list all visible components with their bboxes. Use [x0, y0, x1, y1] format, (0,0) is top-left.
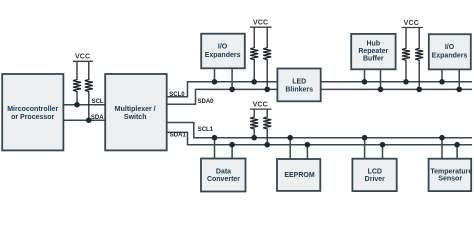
svg-text:VCC: VCC [253, 20, 268, 27]
svg-text:VCC: VCC [253, 101, 268, 108]
svg-text:Data: Data [216, 168, 231, 175]
svg-text:Multiplexer /: Multiplexer / [115, 106, 156, 113]
svg-text:VCC: VCC [404, 20, 419, 27]
svg-text:VCC: VCC [75, 54, 90, 61]
svg-text:I/O: I/O [218, 43, 228, 50]
svg-text:Blinkers: Blinkers [285, 87, 313, 94]
svg-text:Driver: Driver [365, 176, 386, 183]
svg-text:LED: LED [292, 79, 306, 86]
svg-text:Converter: Converter [207, 176, 240, 183]
svg-text:Repeater: Repeater [358, 48, 388, 55]
svg-text:SCL0: SCL0 [169, 92, 185, 98]
svg-text:Sensor: Sensor [438, 176, 462, 183]
svg-text:Expanders: Expanders [205, 52, 241, 59]
svg-text:SCL1: SCL1 [198, 127, 214, 133]
svg-text:EEPROM: EEPROM [284, 172, 315, 179]
svg-text:SCL: SCL [92, 99, 104, 105]
svg-text:SDA1: SDA1 [170, 132, 187, 138]
svg-text:Hub: Hub [366, 41, 380, 48]
svg-text:or Processor: or Processor [11, 114, 54, 121]
svg-text:SDA0: SDA0 [198, 99, 215, 105]
svg-text:Mircocontroller: Mircocontroller [7, 106, 58, 113]
svg-text:Expanders: Expanders [432, 52, 468, 59]
svg-text:SDA: SDA [91, 115, 104, 121]
svg-text:Switch: Switch [124, 114, 147, 121]
svg-text:LCD: LCD [368, 168, 382, 175]
svg-text:I/O: I/O [445, 44, 455, 51]
svg-text:Buffer: Buffer [363, 56, 384, 63]
